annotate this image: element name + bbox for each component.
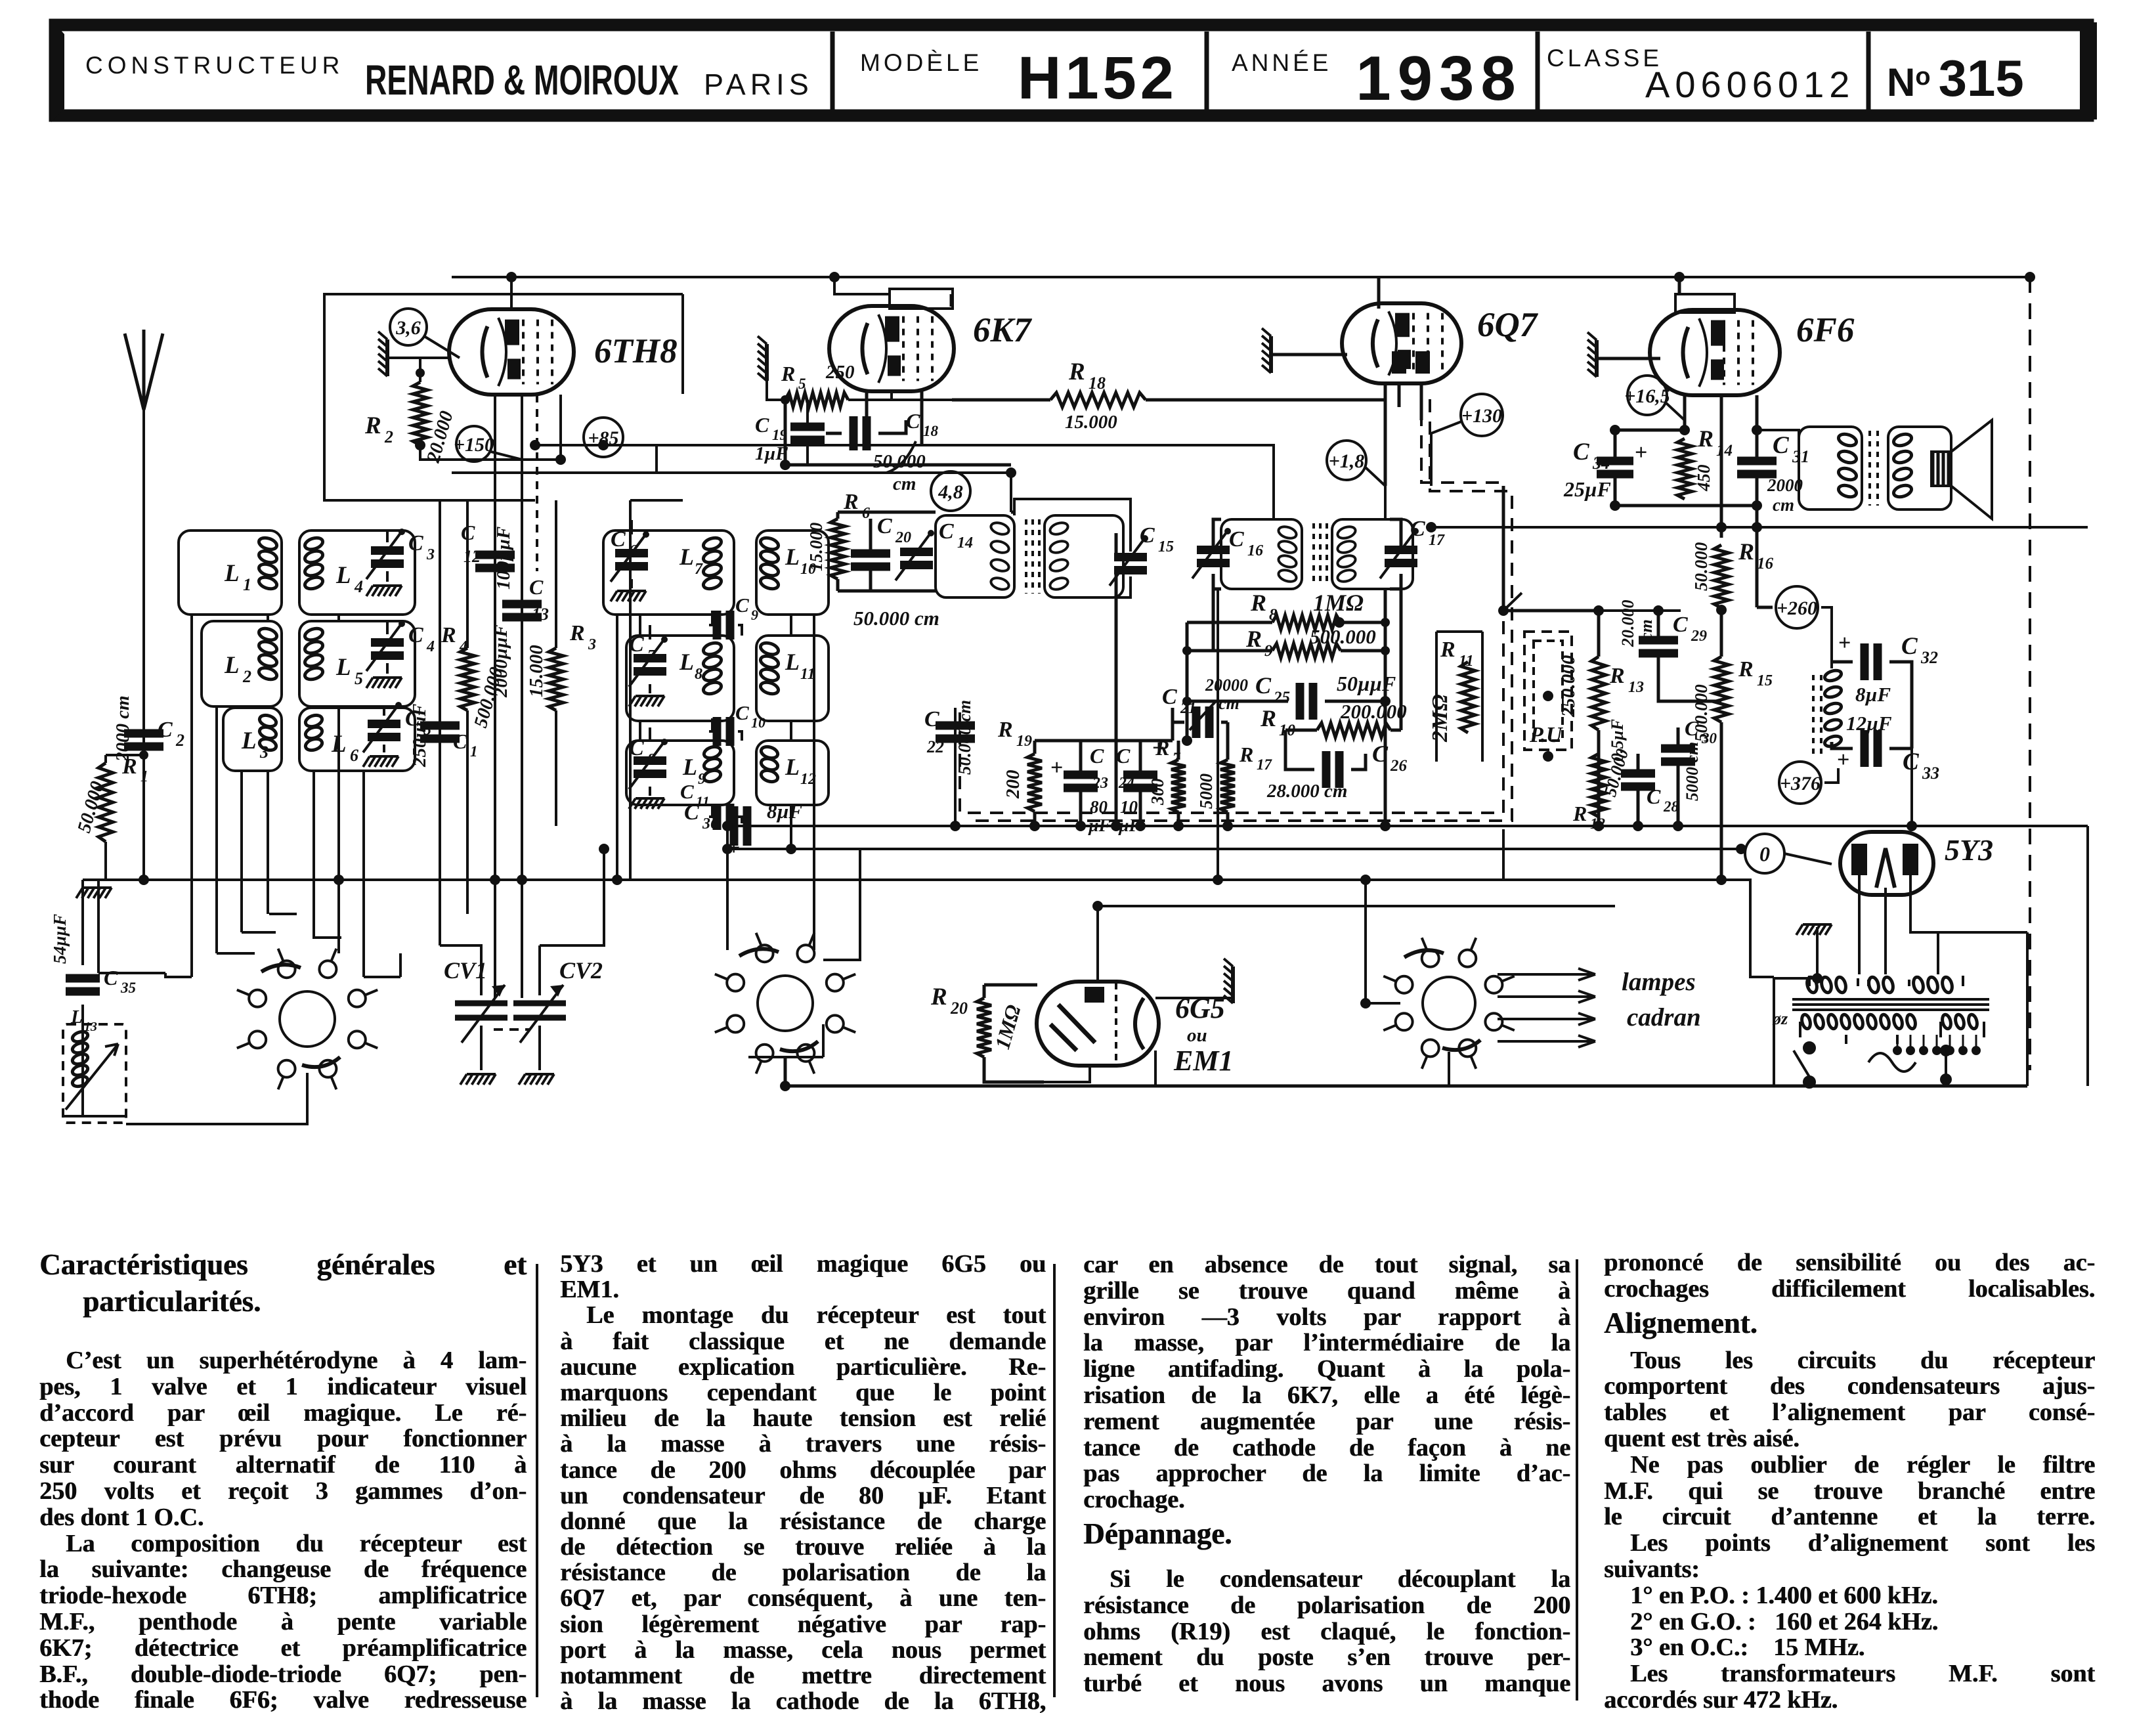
capacitor C9 — [717, 611, 730, 640]
wire 6G5 right down — [1154, 1051, 1157, 1086]
header right thick edge — [2080, 22, 2097, 119]
svg-text:R: R — [121, 754, 137, 779]
svg-text:32: 32 — [1920, 648, 1938, 667]
wire C3 top — [386, 531, 389, 582]
ground C7 — [629, 696, 664, 706]
svg-text:L: L — [785, 544, 800, 570]
inductor L3 — [258, 713, 278, 752]
capacitor C36 — [734, 806, 747, 846]
svg-text:R: R — [930, 984, 947, 1010]
band switch S2 — [715, 933, 855, 1073]
svg-text:ANNÉE: ANNÉE — [1232, 49, 1331, 76]
svg-text:R: R — [781, 362, 795, 385]
svg-text:8µF: 8µF — [1855, 683, 1891, 706]
wire CV gang dashed — [494, 1028, 529, 1031]
wire antifading dashed — [960, 391, 1503, 813]
svg-text:C: C — [877, 514, 892, 538]
svg-text:L: L — [679, 544, 694, 570]
svg-text:5000: 5000 — [1196, 773, 1216, 810]
wire C31 v — [1756, 430, 1759, 506]
node junction — [517, 875, 527, 885]
header divider — [1536, 32, 1540, 110]
node j1 — [1182, 646, 1192, 655]
svg-text:R: R — [1609, 664, 1625, 688]
svg-text:9: 9 — [698, 771, 706, 788]
svg-text:24: 24 — [1118, 775, 1134, 792]
filter choke — [1813, 668, 1843, 755]
wire AVC drop left — [722, 826, 727, 849]
inductor L9 — [702, 745, 722, 783]
svg-text:11: 11 — [1459, 653, 1474, 670]
inductor L7 box — [603, 531, 734, 615]
wire CV1 vert — [480, 978, 483, 1070]
wire C11 link — [709, 805, 742, 823]
svg-text:500.000: 500.000 — [1691, 684, 1711, 742]
node junction — [1182, 735, 1192, 746]
wire osc grid dashed — [536, 395, 538, 571]
antenna — [125, 330, 163, 410]
svg-text:0: 0 — [1759, 842, 1770, 866]
wire 6F6 anode to OT — [1757, 430, 1799, 439]
svg-text:C: C — [1673, 613, 1688, 637]
svg-text:1MΩ: 1MΩ — [1313, 590, 1364, 616]
node junction — [1752, 500, 1762, 511]
wire C22 vertical — [954, 708, 957, 826]
node junction — [1752, 425, 1762, 435]
wire R1 top link — [106, 754, 144, 756]
capacitor C10 — [717, 717, 730, 746]
capacitor C29 — [1639, 640, 1678, 653]
capacitor C17 — [1380, 528, 1419, 578]
inductor L13 arrow — [66, 1044, 118, 1110]
wire +376 link — [1824, 768, 1838, 783]
svg-text:28.000 cm: 28.000 cm — [1266, 781, 1347, 802]
svg-text:C: C — [1229, 527, 1244, 552]
svg-text:12: 12 — [464, 547, 481, 566]
node junction — [1752, 522, 1762, 532]
node junction — [1716, 605, 1727, 615]
node +85 — [584, 418, 623, 457]
wire +260 to choke — [1821, 607, 1832, 668]
svg-text:C: C — [1410, 517, 1425, 541]
svg-text:19: 19 — [772, 427, 788, 443]
inductor L8 — [702, 641, 723, 696]
svg-text:20000: 20000 — [1205, 676, 1248, 695]
wire R7 leads — [1177, 741, 1180, 826]
inductor L5 box — [299, 621, 415, 706]
tube 6K7 grid cap — [890, 289, 953, 309]
wire socket feed left — [1366, 880, 1400, 1003]
svg-text:5: 5 — [355, 669, 363, 688]
node junction — [1092, 901, 1103, 911]
svg-text:C: C — [158, 718, 173, 742]
svg-text:3,6: 3,6 — [395, 317, 421, 339]
text column 2 — [560, 1251, 1046, 1713]
resistor R4 — [460, 648, 475, 710]
wire 6G5 top feed — [1098, 906, 1615, 982]
svg-text:23: 23 — [1092, 775, 1108, 792]
node junction — [490, 875, 500, 885]
inductor L11 — [759, 641, 780, 696]
svg-text:No315: No315 — [1887, 49, 2024, 107]
svg-text:R: R — [1697, 425, 1714, 452]
inductor L8 box — [626, 636, 734, 721]
node j4 — [1381, 646, 1390, 655]
node junction — [1907, 821, 1917, 831]
capacitor C31 — [1737, 461, 1777, 474]
svg-text:R: R — [1245, 626, 1262, 652]
header divider — [830, 32, 835, 110]
svg-text:R: R — [1250, 590, 1266, 616]
svg-text:8: 8 — [647, 751, 655, 768]
speaker coil hatch — [1935, 453, 1946, 485]
resistor R18 — [1050, 393, 1146, 407]
node junction — [334, 875, 344, 885]
wire C32 link — [1832, 662, 1912, 748]
svg-text:13: 13 — [84, 1020, 97, 1034]
inductor L6 — [304, 713, 324, 752]
svg-text:C: C — [735, 594, 749, 617]
svg-text:C: C — [529, 575, 544, 599]
svg-text:20: 20 — [950, 999, 968, 1018]
wire osc box right — [681, 294, 684, 394]
node junction — [829, 272, 840, 282]
wire C19 branch — [785, 400, 1011, 465]
capacitor C22 — [936, 726, 975, 739]
wire +150 tail — [491, 452, 522, 460]
svg-text:C: C — [1162, 685, 1177, 709]
node +130 — [1461, 394, 1503, 436]
capacitor C32 — [1865, 643, 1878, 680]
wire socket drop — [1448, 1052, 1450, 1086]
node junction — [780, 1081, 790, 1091]
node junction — [1812, 973, 1822, 984]
resistor R19 — [1027, 754, 1042, 812]
wire lamp feed 3 — [1498, 1013, 1595, 1025]
svg-text:cadran: cadran — [1627, 1003, 1701, 1031]
svg-text:500.000: 500.000 — [1310, 625, 1376, 648]
capacitor C23 — [1064, 775, 1098, 788]
power transformer — [1792, 976, 1989, 1044]
wire T1 links — [1014, 499, 1131, 597]
svg-text:10: 10 — [1279, 722, 1296, 739]
dial lamp socket — [1383, 938, 1515, 1069]
svg-text:4: 4 — [354, 577, 363, 596]
svg-text:C: C — [453, 729, 467, 753]
inductor L11 box — [756, 636, 829, 721]
svg-text:L: L — [785, 754, 800, 780]
node junction — [780, 460, 790, 470]
wire R13 leads — [1597, 611, 1601, 826]
node 4,8 — [931, 471, 970, 511]
inductor L10 box — [756, 531, 829, 615]
svg-text:C: C — [104, 966, 118, 989]
capacitor C33 — [1865, 730, 1878, 767]
ground 5Y3 — [1796, 924, 1832, 935]
inductor L4 box — [299, 531, 415, 615]
svg-text:PARIS: PARIS — [704, 68, 813, 101]
svg-text:10: 10 — [800, 561, 816, 578]
inductor L2 box — [202, 621, 282, 706]
svg-text:18: 18 — [923, 423, 939, 439]
wire 6Q7 grid gnd — [1271, 277, 1379, 355]
capacitor C3 — [366, 529, 405, 579]
wire C21 h — [1173, 708, 1228, 741]
wire C35 branch — [63, 880, 125, 1116]
inductor L12 — [760, 745, 779, 783]
svg-text:R: R — [1260, 705, 1276, 731]
wire coil drop 7 — [362, 771, 365, 977]
node junction — [1334, 617, 1345, 628]
wire C9 link — [709, 611, 742, 636]
capacitor C6 — [611, 531, 649, 582]
wire 6F6 grid gnd — [1597, 277, 1679, 358]
svg-text:8: 8 — [695, 666, 702, 683]
capacitor C19 — [790, 427, 825, 440]
wire C33 down — [1910, 748, 1913, 826]
svg-text:12µF: 12µF — [1846, 712, 1892, 735]
wire 6G5 bottom — [1044, 1067, 1090, 1082]
resistor R1 — [98, 763, 113, 842]
header divider — [1866, 32, 1871, 110]
node junction — [1173, 821, 1184, 831]
svg-text:0,5µF: 0,5µF — [1608, 719, 1627, 762]
ground 6TH8 grid — [378, 332, 387, 376]
svg-text:3: 3 — [588, 636, 596, 653]
wire C30 v — [1677, 727, 1680, 826]
svg-text:25: 25 — [1273, 689, 1290, 706]
text column 3 — [1083, 1252, 1570, 1697]
svg-text:CV2: CV2 — [559, 957, 603, 984]
wire misc v4 — [1502, 829, 1505, 880]
capacitor C34 — [1597, 461, 1633, 474]
resistor R15 — [1714, 657, 1729, 722]
svg-text:cm: cm — [1773, 495, 1794, 515]
ground C4 — [366, 678, 402, 688]
secondary taps — [1893, 1046, 1981, 1055]
capacitor C18 — [853, 416, 867, 450]
node +1,8 — [1327, 441, 1366, 480]
svg-text:+: + — [1050, 756, 1063, 780]
resistor R9 — [1272, 643, 1341, 658]
svg-text:29: 29 — [1691, 628, 1707, 645]
svg-text:A0606012: A0606012 — [1645, 64, 1855, 105]
secondary tap drops — [1897, 1035, 1976, 1051]
capacitor C26 — [1326, 751, 1339, 788]
node junction — [1679, 425, 1690, 435]
svg-text:5Y3: 5Y3 — [1945, 833, 1993, 867]
node junction — [1674, 272, 1685, 282]
wire C1 vertical — [440, 500, 481, 978]
wire gnd to tube — [387, 357, 450, 359]
capacitor C2 — [124, 733, 163, 747]
wire coil drop 4 — [267, 615, 269, 914]
capacitor C15 — [1110, 535, 1148, 586]
svg-text:3: 3 — [259, 743, 269, 762]
capacitor C11 — [717, 804, 730, 830]
wire C34 v — [1614, 430, 1617, 506]
wire heater dashed right — [2029, 277, 2031, 1070]
svg-text:36: 36 — [702, 815, 718, 833]
wire AVC bus — [727, 848, 1741, 850]
label C18 arrow — [886, 441, 916, 473]
resistor R16 — [1714, 545, 1729, 608]
node junction — [612, 875, 622, 885]
pickup P.U dashed box — [1524, 632, 1572, 750]
svg-text:R: R — [843, 490, 859, 514]
svg-text:31: 31 — [1792, 447, 1809, 466]
svg-text:54µµF: 54µµF — [50, 914, 70, 964]
wire antifading dashed 2 — [968, 399, 1512, 821]
wire T2 feed — [1274, 486, 1385, 622]
tube 6G5 innards — [1050, 983, 1144, 1064]
svg-text:C: C — [408, 531, 423, 555]
wire R4 vertical — [466, 500, 469, 914]
node junction — [530, 440, 540, 450]
node junction — [1498, 605, 1509, 616]
node +260 — [1776, 586, 1818, 628]
wire R17 leads — [1226, 722, 1230, 826]
capacitor C4 — [366, 620, 405, 671]
node junction — [1736, 844, 1746, 854]
tube 6F6 grid cap — [1675, 294, 1735, 313]
node 3,6 — [390, 309, 427, 345]
svg-text:cm: cm — [1218, 694, 1240, 713]
wire coil drop 6 — [337, 615, 340, 953]
wire +1,8 link — [1366, 467, 1385, 486]
node junction — [722, 821, 733, 831]
svg-text:C: C — [1573, 439, 1590, 466]
svg-text:C: C — [924, 707, 939, 731]
node PU dot — [1543, 691, 1553, 701]
node junction — [1075, 821, 1086, 831]
wire T2 tops — [1213, 519, 1401, 589]
svg-text:+16,5: +16,5 — [1624, 385, 1670, 407]
svg-text:35: 35 — [120, 980, 136, 996]
svg-text:C: C — [1090, 744, 1104, 768]
node j5 — [1381, 697, 1390, 706]
node junction — [415, 440, 425, 450]
wire lamp feed 4 — [1498, 1035, 1595, 1047]
wire C10 link — [709, 718, 742, 741]
svg-text:R: R — [1068, 358, 1085, 385]
ground C3 — [366, 586, 402, 596]
wire C34-R14 top — [1615, 429, 1685, 432]
svg-text:9: 9 — [751, 607, 758, 623]
svg-text:C: C — [684, 800, 699, 825]
wire +130 link — [1431, 422, 1461, 486]
node +150 — [454, 426, 494, 462]
wire lamp feed 2 — [1498, 991, 1595, 1003]
svg-text:8µF: 8µF — [767, 800, 802, 823]
inductor L12 box — [756, 741, 829, 805]
wire S2 long drop — [785, 1057, 2027, 1086]
svg-text:+150: +150 — [454, 434, 494, 456]
node PU dot2 — [1543, 751, 1553, 762]
svg-text:50.000: 50.000 — [1691, 542, 1711, 591]
wire R8 line — [1187, 621, 1385, 624]
svg-text:2: 2 — [384, 427, 393, 446]
wire +16,5 link — [1666, 403, 1685, 420]
svg-text:L: L — [335, 654, 351, 681]
svg-text:µF: µF — [1088, 815, 1111, 835]
wire 6G5 gnd — [1155, 985, 1233, 998]
svg-text:34: 34 — [1592, 454, 1610, 473]
svg-text:5000 cm: 5000 cm — [1683, 742, 1702, 801]
svg-text:C: C — [461, 521, 475, 544]
tube 5Y3 — [1840, 832, 1933, 895]
wire R2 bottom — [387, 358, 561, 460]
mains switch — [1794, 1043, 1815, 1087]
wire coil drop 1 — [190, 615, 193, 977]
ground 6F6 — [1587, 332, 1597, 377]
svg-text:C: C — [1255, 672, 1272, 699]
node junction — [1360, 875, 1371, 885]
wire R12 leads — [1597, 817, 1600, 826]
wire C16 drop — [1212, 589, 1215, 651]
svg-text:L: L — [679, 649, 694, 675]
node junction — [1716, 875, 1727, 885]
resistor R12 — [1591, 754, 1606, 817]
node j2 — [1182, 697, 1192, 706]
svg-text:R: R — [1155, 736, 1169, 760]
capacitor C8 — [629, 739, 668, 789]
node junction — [1111, 821, 1121, 831]
wire screen bus — [452, 473, 1011, 512]
svg-text:450: 450 — [1694, 464, 1714, 492]
node junction — [786, 844, 796, 854]
wire CV2 top link — [540, 849, 604, 945]
speaker — [1931, 420, 1992, 519]
svg-text:L: L — [241, 727, 257, 754]
resistor R5 — [785, 393, 848, 407]
wire R1 leads — [104, 755, 107, 880]
ground CV2 — [519, 1074, 554, 1085]
svg-text:3: 3 — [426, 546, 435, 563]
wire osc bank drops — [617, 615, 814, 950]
capacitor CV1 — [455, 985, 507, 1043]
node R2 top — [416, 368, 425, 378]
resistor R17 — [1220, 760, 1235, 812]
wire R15 leads — [1720, 610, 1723, 880]
inductor L3 box — [223, 708, 282, 771]
svg-text:200: 200 — [1003, 770, 1024, 800]
inductor L7 — [702, 536, 723, 591]
svg-text:2000 cm: 2000 cm — [112, 695, 133, 762]
wire misc v1 — [630, 500, 683, 880]
inductor L9 box — [626, 741, 734, 805]
wire lamp feed 1 — [1498, 968, 1595, 980]
wire C5 leads — [383, 708, 385, 752]
node junction — [139, 875, 149, 885]
capacitor C6 leads — [630, 520, 633, 588]
svg-text:L: L — [224, 652, 240, 679]
node junction — [598, 440, 609, 450]
resistor R10 — [1317, 723, 1391, 737]
svg-text:CONSTRUCTEUR: CONSTRUCTEUR — [85, 52, 344, 79]
wire coil drop 5 — [313, 771, 315, 914]
svg-text:+260: +260 — [1777, 597, 1817, 619]
svg-text:R: R — [1572, 802, 1587, 825]
wire 6F6 pins — [1685, 395, 1757, 538]
inductor L13 — [71, 1030, 89, 1089]
wire R19 leads — [1035, 741, 1173, 826]
column divider 1 — [536, 1264, 538, 1697]
ground CV1 — [460, 1074, 496, 1085]
svg-text:15.000: 15.000 — [1065, 412, 1117, 433]
svg-text:C: C — [735, 701, 749, 724]
svg-text:R: R — [1440, 638, 1455, 662]
